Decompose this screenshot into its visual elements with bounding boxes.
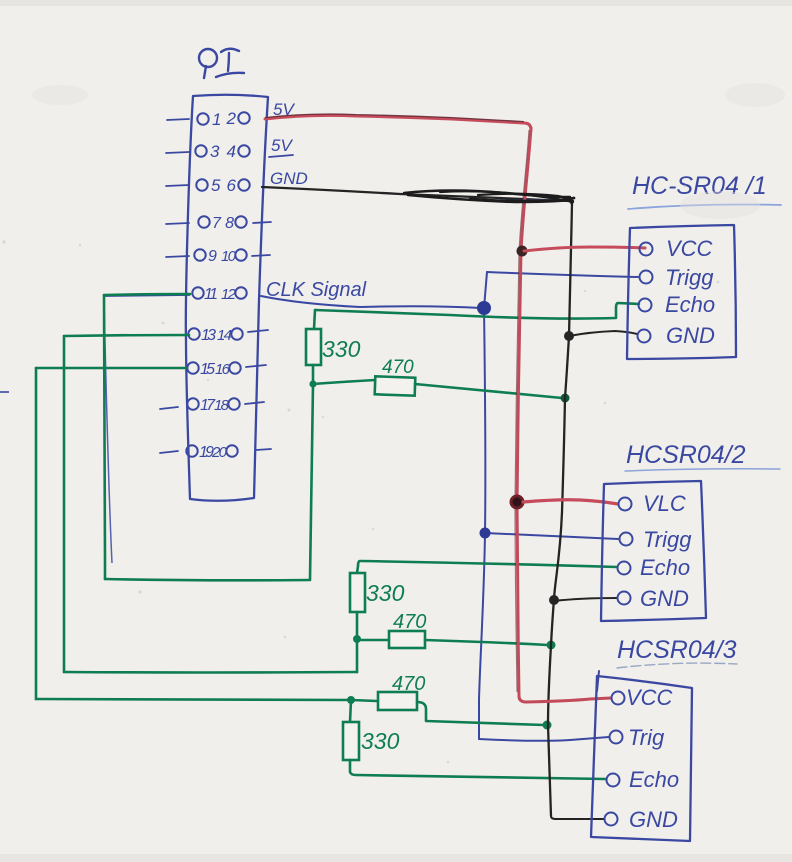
wire junction1 down xyxy=(310,384,313,579)
svg-text:Trigg: Trigg xyxy=(665,265,714,290)
svg-text:2: 2 xyxy=(226,109,237,128)
resistor R1 330 xyxy=(306,329,321,365)
wire R2 to GND rail xyxy=(415,384,562,398)
wire pin15 vertical xyxy=(35,368,38,699)
pin row 2 (pins 3,4) xyxy=(195,145,249,156)
U1 pin VCC xyxy=(640,243,653,256)
svg-text:16: 16 xyxy=(215,361,231,378)
svg-text:20: 20 xyxy=(211,444,228,461)
svg-text:11: 11 xyxy=(204,286,218,303)
svg-text:6: 6 xyxy=(227,176,237,195)
node divider2 junction xyxy=(353,635,361,643)
svg-text:Trigg: Trigg xyxy=(643,527,692,552)
wire 5V rail vertical xyxy=(517,128,531,702)
wire VCC3 red branch xyxy=(526,698,611,702)
wire junction1 to R2 xyxy=(313,380,375,384)
svg-text:HCSR04/2: HCSR04/2 xyxy=(626,441,746,469)
node GND1 junction xyxy=(564,331,574,341)
tick pin14 xyxy=(248,330,268,332)
U3 pin Echo xyxy=(607,774,620,787)
stray mark left edge xyxy=(0,391,9,393)
svg-text:18: 18 xyxy=(214,397,230,414)
sensor U3 box xyxy=(591,676,692,841)
svg-text:330: 330 xyxy=(361,728,400,754)
U2 pin Trigg xyxy=(620,533,633,546)
U3 pin GND xyxy=(605,813,618,826)
wire horizontal to pin13 column xyxy=(64,671,357,674)
wire VCC1 red branch xyxy=(524,247,645,251)
svg-text:HCSR04/3: HCSR04/3 xyxy=(617,636,737,664)
tick pin9 xyxy=(166,256,189,257)
wire junction3 down to R6 xyxy=(350,700,351,722)
wire pin11 horizontal xyxy=(104,294,190,295)
svg-text:14: 14 xyxy=(217,327,232,344)
wire R4 to GND rail xyxy=(425,640,548,645)
wire R6 bottom to Echo3 xyxy=(350,760,606,779)
faint gray smudge patches xyxy=(32,83,785,219)
wire GND black from pin6 xyxy=(262,187,573,201)
wire R5 to GND rail xyxy=(417,702,544,725)
U2 pin VLC xyxy=(619,498,632,511)
pin row 10 (pins 19,20) xyxy=(186,445,237,456)
5V rail dark edge xyxy=(515,130,529,692)
svg-text:Trig: Trig xyxy=(628,725,665,750)
svg-text:Echo: Echo xyxy=(629,767,679,792)
tick pin18 xyxy=(245,402,264,404)
node R2-GND junction xyxy=(561,394,570,403)
svg-text:470: 470 xyxy=(393,611,426,633)
tick pin16 xyxy=(246,365,266,367)
pin row 1 (pins 1,2) xyxy=(197,112,249,124)
wire R3 bottom stem xyxy=(356,612,359,639)
svg-text:VCC: VCC xyxy=(666,236,713,261)
pin row 9 (pins 17,18) xyxy=(187,398,239,409)
pin row 6 (pins 11,12) xyxy=(192,287,246,298)
U2 pin Echo xyxy=(618,562,631,575)
resistor R4 470 xyxy=(389,631,425,648)
wire junction2 to R4 xyxy=(357,639,389,642)
wire CLK blue from pin12 to junction xyxy=(261,296,481,308)
svg-text:8: 8 xyxy=(225,215,234,232)
sensor U2 box xyxy=(601,481,706,621)
svg-text:Echo: Echo xyxy=(640,555,690,580)
U3 title underline xyxy=(617,663,737,668)
stray blue line left of Pi xyxy=(104,300,112,563)
wire VCC2 red branch xyxy=(523,500,618,504)
wire 5V red from pin2 xyxy=(265,115,531,130)
tick pin10 xyxy=(252,255,270,256)
svg-text:GND: GND xyxy=(629,807,678,832)
pin row 5 (pins 9,10) xyxy=(194,249,246,260)
node VCC1 junction xyxy=(517,246,528,257)
node Trigg2 junction xyxy=(480,528,491,539)
U2 title underline xyxy=(625,469,780,471)
node divider1 junction xyxy=(309,380,316,387)
svg-text:5V: 5V xyxy=(271,136,293,155)
wire Trigg1 xyxy=(487,272,638,277)
svg-text:1: 1 xyxy=(212,110,221,129)
svg-text:12: 12 xyxy=(221,286,237,303)
svg-text:5: 5 xyxy=(211,176,221,195)
resistor R2 470 xyxy=(375,376,416,395)
wire GND3 branch xyxy=(551,816,604,819)
resistor R5 470 xyxy=(378,692,417,710)
pin row 4 (pins 7,8) xyxy=(198,216,246,227)
node GND2 junction xyxy=(549,595,559,605)
title PI xyxy=(199,49,244,78)
wire pin11 vertical xyxy=(104,295,105,579)
svg-text:VLC: VLC xyxy=(643,491,686,516)
wire Echo1 green xyxy=(315,303,639,319)
wire pin13 horizontal xyxy=(64,335,189,336)
tick pin5 xyxy=(166,185,189,186)
svg-text:GND: GND xyxy=(640,586,689,611)
svg-text:Echo: Echo xyxy=(665,292,715,317)
tick pin19 xyxy=(160,451,178,453)
tick pin8 xyxy=(253,222,271,223)
svg-text:GND: GND xyxy=(666,323,715,348)
node CLK junction xyxy=(477,301,491,315)
wire GND1 branch xyxy=(569,331,637,336)
wire 330-1 top stem xyxy=(314,310,315,329)
node VCC2 junction big xyxy=(510,495,525,510)
tick pin1 xyxy=(167,119,189,120)
U1 pin Trigg xyxy=(640,271,653,284)
wire GND rail vertical xyxy=(548,203,572,816)
Pi header box xyxy=(186,95,268,501)
wire bottom horizontal to pin11 column xyxy=(105,579,310,580)
wire Trig3 xyxy=(479,737,609,741)
GND scribble strokes xyxy=(404,191,574,205)
wire GND2 branch xyxy=(554,598,617,601)
svg-text:VCC: VCC xyxy=(626,685,673,710)
tick pin17 xyxy=(160,407,178,409)
U3 pin VCC xyxy=(612,692,625,705)
U2 pin GND xyxy=(618,592,631,605)
GND scribble blue underlayer xyxy=(500,199,562,202)
svg-text:9: 9 xyxy=(208,248,217,265)
svg-text:330: 330 xyxy=(322,336,361,362)
U3 pin Trig xyxy=(610,731,623,744)
wire junction3 to R5 xyxy=(351,700,377,701)
wire Trigg2 xyxy=(485,533,618,539)
blue underlay pin11 wire xyxy=(104,295,190,296)
svg-text:470: 470 xyxy=(382,357,414,378)
resistor R6 330 xyxy=(343,722,359,760)
svg-text:7: 7 xyxy=(212,215,222,232)
svg-text:3: 3 xyxy=(210,142,220,161)
node R4-GND junction xyxy=(547,641,556,650)
tick pin7 xyxy=(166,223,189,224)
svg-text:CLK Signal: CLK Signal xyxy=(266,279,367,301)
svg-text:10: 10 xyxy=(221,248,237,265)
sensor U1 box xyxy=(627,225,736,359)
tick pin3 xyxy=(166,152,189,153)
U1 pin Echo xyxy=(639,299,652,312)
tick pin20 xyxy=(256,449,271,450)
svg-text:4: 4 xyxy=(227,142,236,161)
U1 title underline xyxy=(628,205,781,210)
wire Echo2 green xyxy=(357,561,617,573)
svg-text:330: 330 xyxy=(366,580,405,606)
pin row 3 (pins 5,6) xyxy=(196,179,249,190)
svg-text:GND: GND xyxy=(270,169,308,188)
node divider3 junction xyxy=(347,696,355,704)
wire 330-1 bottom stem xyxy=(312,365,315,383)
U3 box corner overshoot xyxy=(597,671,599,691)
svg-text:470: 470 xyxy=(392,673,425,695)
wire pin13 vertical xyxy=(63,336,66,672)
wire pin15 horizontal xyxy=(36,367,187,370)
resistor R3 330 xyxy=(350,573,365,612)
svg-text:13: 13 xyxy=(201,327,216,344)
node R5-GND junction xyxy=(543,721,552,730)
svg-text:15: 15 xyxy=(200,361,215,378)
pin row 8 (pins 15,16) xyxy=(187,362,240,373)
wire blue trigger rail vertical xyxy=(479,272,487,739)
wire horizontal to junction3 xyxy=(36,699,351,700)
U1 pin GND xyxy=(638,330,651,343)
pin row 7 (pins 13,14) xyxy=(188,328,242,339)
faint paper smudges xyxy=(2,185,719,862)
wire junction2 down xyxy=(356,639,359,672)
label 5V pin4 underlined xyxy=(269,136,293,157)
5V wire dark top edge xyxy=(265,114,524,122)
